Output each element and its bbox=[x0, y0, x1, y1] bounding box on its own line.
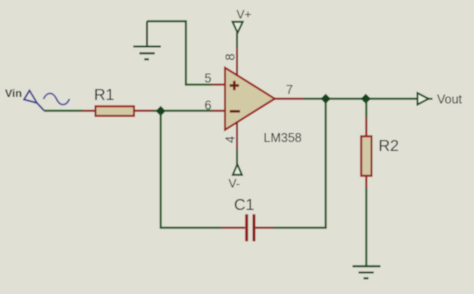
resistor R1 bbox=[83, 87, 154, 116]
wire feedback left vertical bbox=[161, 113, 222, 228]
svg-text:8: 8 bbox=[224, 53, 238, 60]
ground bottom-right bbox=[353, 266, 381, 278]
wire node A to op-amp pin 6 bbox=[165, 110, 212, 112]
pin 6 stub bbox=[212, 110, 225, 112]
svg-text:C1: C1 bbox=[234, 197, 255, 214]
wire pin7 to Vout bbox=[304, 98, 417, 100]
node B junction bbox=[321, 95, 330, 104]
resistor R2 bbox=[361, 118, 399, 189]
svg-text:5: 5 bbox=[205, 71, 212, 85]
svg-text:Vin: Vin bbox=[5, 88, 22, 100]
svg-text:Vout: Vout bbox=[437, 92, 463, 106]
terminal V+ bbox=[233, 8, 252, 47]
node C junction bbox=[362, 95, 371, 104]
wire node C down to R2 bbox=[365, 99, 367, 118]
wire R2 to ground bbox=[365, 188, 367, 266]
Vin source arrow bbox=[24, 91, 44, 111]
svg-text:4: 4 bbox=[224, 136, 238, 143]
wire ground to pin 5 bbox=[147, 21, 212, 84]
terminal Vout bbox=[417, 92, 462, 106]
pin 4 stub bbox=[236, 122, 238, 149]
Vin sine symbol bbox=[44, 93, 70, 104]
svg-text:V+: V+ bbox=[237, 8, 252, 22]
ground top-left bbox=[133, 21, 161, 59]
svg-text:V-: V- bbox=[229, 177, 240, 191]
op-amp U1 LM358 bbox=[205, 53, 302, 145]
svg-text:7: 7 bbox=[286, 83, 293, 97]
terminal V- bbox=[229, 150, 242, 191]
wire C1 to output node vertical bbox=[273, 99, 326, 228]
svg-text:LM358: LM358 bbox=[264, 131, 302, 145]
pin 5 stub bbox=[212, 84, 225, 86]
svg-text:6: 6 bbox=[205, 98, 212, 112]
pin 8 stub bbox=[236, 47, 238, 76]
wire R1 to node A bbox=[153, 110, 158, 112]
node A junction bbox=[156, 107, 165, 116]
svg-text:R1: R1 bbox=[94, 87, 115, 104]
svg-text:R2: R2 bbox=[379, 138, 400, 155]
pin 7 stub bbox=[275, 98, 304, 100]
wire Vin to R1 bbox=[44, 110, 83, 112]
capacitor C1 bbox=[222, 197, 273, 241]
